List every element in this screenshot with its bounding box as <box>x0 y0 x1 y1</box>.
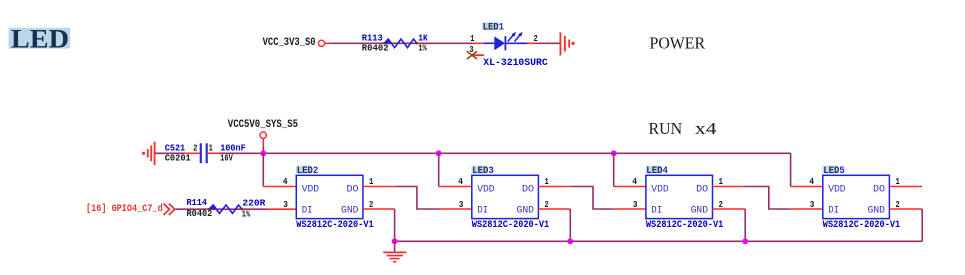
wire VCC drop to LED4 pin4 <box>614 153 646 186</box>
svg-text:1: 1 <box>209 142 213 153</box>
svg-text:DO: DO <box>696 185 708 196</box>
svg-text:DI: DI <box>828 206 839 217</box>
junction at VCC5V0_SYS_S5 port <box>260 150 266 156</box>
svg-text:WS2812C-2020-V1: WS2812C-2020-V1 <box>472 220 549 231</box>
svg-text:3: 3 <box>283 199 288 210</box>
svg-text:4: 4 <box>809 176 814 187</box>
wire VCC rail (top horizontal) <box>219 152 791 154</box>
svg-text:4: 4 <box>458 176 463 187</box>
svg-text:1%: 1% <box>242 208 250 219</box>
wire VCC drop to LED2 pin4 <box>263 153 296 186</box>
junction at LED3 GND <box>567 238 573 244</box>
LED3 WS2812C-2020-V1 <box>458 165 549 231</box>
svg-text:VDD: VDD <box>477 185 494 196</box>
svg-text:4: 4 <box>283 176 288 187</box>
svg-text:DO: DO <box>873 185 885 196</box>
svg-text:220R: 220R <box>242 197 265 208</box>
capacitor C521 100nF 16V C0201 <box>165 142 246 163</box>
wire LED5 GND to ground rail <box>889 209 922 241</box>
wire LED3 DO to LED4 DI <box>538 187 646 210</box>
wire LED3 GND to ground rail <box>538 209 570 241</box>
wire LED4 GND to ground rail <box>713 209 746 241</box>
junction at LED3 VDD branch <box>436 150 442 156</box>
svg-text:DI: DI <box>477 206 488 217</box>
svg-text:[16] GPIO4_C7_d: [16] GPIO4_C7_d <box>86 203 163 215</box>
svg-text:C0201: C0201 <box>165 153 191 164</box>
svg-text:16V: 16V <box>220 153 233 164</box>
svg-text:GND: GND <box>341 206 359 217</box>
sheet title LED (highlighted) <box>9 23 71 53</box>
svg-text:WS2812C-2020-V1: WS2812C-2020-V1 <box>823 220 900 231</box>
svg-text:XL-3210SURC: XL-3210SURC <box>483 58 547 69</box>
svg-text:LED: LED <box>11 23 69 53</box>
LED2 WS2812C-2020-V1 <box>283 165 374 231</box>
svg-text:VCC5V0_SYS_S5: VCC5V0_SYS_S5 <box>228 119 298 131</box>
svg-text:POWER: POWER <box>650 33 706 52</box>
svg-text:LED1: LED1 <box>483 22 504 34</box>
wire VCC_3V3_S0 to R113 to LED1 pin1 <box>325 42 472 44</box>
svg-text:1%: 1% <box>418 43 427 54</box>
LED4 WS2812C-2020-V1 <box>632 165 723 231</box>
svg-text:DI: DI <box>302 206 313 217</box>
emission arrows <box>508 35 513 42</box>
net VCC_3V3_S0 power port <box>263 37 325 49</box>
svg-text:WS2812C-2020-V1: WS2812C-2020-V1 <box>296 220 373 231</box>
svg-text:1: 1 <box>545 176 549 187</box>
wire LED1 pin2 to power bar <box>539 42 561 44</box>
svg-text:GND: GND <box>691 206 709 217</box>
LED1 XL-3210SURC <box>467 22 548 69</box>
svg-text:3: 3 <box>633 199 638 210</box>
svg-text:x4: x4 <box>695 119 717 138</box>
resistor R113 1K R0402 <box>362 32 428 53</box>
wire LED5 DO stub <box>889 186 922 188</box>
text RUN x4 <box>649 119 718 138</box>
wire LED4 DO to LED5 DI <box>713 187 823 210</box>
svg-text:3: 3 <box>810 199 815 210</box>
svg-text:VDD: VDD <box>651 185 668 196</box>
wire GPIO to R114 to LED2 pin3 <box>176 208 297 210</box>
svg-text:1: 1 <box>369 176 373 187</box>
svg-text:VDD: VDD <box>828 185 845 196</box>
svg-text:DO: DO <box>522 185 534 196</box>
power bar symbol (right) <box>560 32 574 55</box>
svg-text:DI: DI <box>651 206 662 217</box>
wire power bar to C521 <box>155 152 186 154</box>
port [16] GPIO4_C7_d <box>86 203 175 215</box>
ground rail (bottom horizontal) <box>395 240 923 242</box>
svg-text:WS2812C-2020-V1: WS2812C-2020-V1 <box>646 220 723 231</box>
junction at LED4 VDD branch <box>611 150 617 156</box>
resistor R114 220R R0402 <box>187 197 266 219</box>
svg-text:2: 2 <box>193 142 197 153</box>
svg-text:VCC_3V3_S0: VCC_3V3_S0 <box>263 37 316 49</box>
svg-text:GND: GND <box>868 206 886 217</box>
LED5 WS2812C-2020-V1 <box>809 165 900 231</box>
svg-text:1: 1 <box>896 176 900 187</box>
svg-text:R114: R114 <box>187 197 208 208</box>
wire LED2 DO to LED3 DI <box>363 187 472 210</box>
junction at LED4 GND <box>742 238 748 244</box>
wire LED2 GND to ground rail <box>363 209 395 241</box>
wire VCC drop to LED3 pin4 <box>439 153 472 186</box>
junction at LED2 GND / ground symbol <box>392 238 398 244</box>
wire VCC drop to LED5 pin4 <box>791 153 823 186</box>
svg-text:1: 1 <box>719 176 723 187</box>
ground symbol <box>383 241 406 261</box>
svg-text:DO: DO <box>347 185 359 196</box>
power bar symbol (left, at C521) <box>142 142 155 165</box>
svg-text:RUN: RUN <box>649 119 683 138</box>
svg-text:VDD: VDD <box>302 185 319 196</box>
net VCC5V0_SYS_S5 power port <box>228 119 298 153</box>
svg-text:GND: GND <box>517 206 535 217</box>
diode body <box>484 42 495 44</box>
svg-text:3: 3 <box>459 199 464 210</box>
svg-text:4: 4 <box>632 176 637 187</box>
